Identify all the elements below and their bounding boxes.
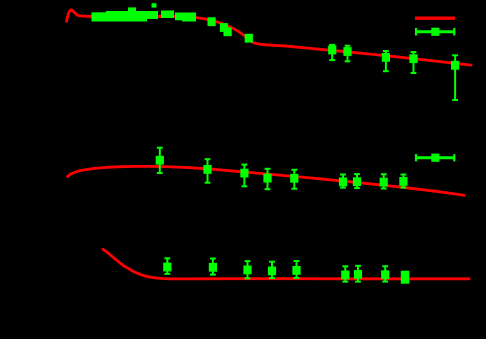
bottom point B3 error bar	[245, 261, 251, 279]
middle point M8	[380, 178, 388, 187]
bottom point C2 error bar	[355, 266, 361, 283]
top data band blob 3	[175, 13, 196, 21]
middle point M7	[353, 177, 361, 186]
middle point M5 error bar	[291, 170, 297, 190]
legend green error bar entry 2	[416, 154, 454, 161]
top point T5 error bar	[329, 45, 335, 61]
legend red line entry	[415, 17, 455, 20]
bottom point B5 error bar	[294, 261, 300, 279]
top point T9 error bar	[452, 55, 458, 100]
top point T5	[328, 46, 336, 55]
top data band blob 1	[92, 12, 148, 21]
legend green square 2	[431, 154, 439, 162]
middle point M1	[156, 156, 164, 165]
middle point M7 error bar	[354, 174, 360, 189]
middle point M9	[399, 177, 407, 186]
middle red theory curve	[68, 166, 465, 195]
bottom red theory curve	[103, 249, 469, 279]
middle point M6	[339, 177, 347, 186]
bottom point B1 error bar	[164, 258, 170, 274]
bottom point B4 error bar	[269, 261, 275, 278]
bottom point B5	[292, 266, 300, 275]
bottom point C3	[381, 270, 389, 279]
bottom point B4	[268, 267, 276, 276]
top point T6 error bar	[345, 45, 351, 61]
middle point M8 error bar	[381, 174, 387, 189]
middle point M4 error bar	[265, 169, 271, 190]
bottom point C4	[401, 271, 410, 284]
middle point M3 error bar	[242, 164, 248, 186]
middle point M1 error bar	[157, 147, 163, 173]
bottom point C3 error bar	[382, 266, 388, 282]
middle point M2 error bar	[205, 159, 211, 183]
middle point M6 error bar	[340, 174, 346, 188]
middle point M9 error bar	[401, 174, 407, 188]
top data band blob 2	[161, 11, 174, 19]
top point T6	[343, 47, 351, 56]
top point T2	[220, 23, 228, 32]
legend green error bar entry 1	[416, 28, 454, 36]
top point T9	[451, 61, 459, 70]
bottom point B3	[243, 266, 251, 275]
top data band spike cap	[152, 3, 157, 7]
middle point M5	[290, 174, 298, 183]
top data band blob 3 lower part	[182, 15, 196, 22]
top point T7	[382, 53, 390, 62]
top point T8	[409, 54, 417, 63]
top point T4	[245, 34, 253, 43]
top red theory curve	[67, 10, 472, 65]
top point T3	[224, 27, 232, 36]
legend green square 1	[431, 28, 439, 36]
middle point M3	[240, 169, 248, 178]
bottom point C1	[341, 271, 349, 280]
middle point M2	[203, 165, 211, 174]
bottom point B2 error bar	[210, 258, 216, 275]
bottom point B1	[163, 263, 171, 272]
middle point M4	[263, 174, 271, 183]
top data band blob 1 upper row	[106, 11, 158, 19]
top point T8 error bar	[411, 52, 417, 74]
bottom point C2	[354, 270, 362, 279]
top data band bump	[128, 7, 136, 12]
bottom point B2	[209, 263, 217, 272]
top point T1	[208, 17, 216, 26]
bottom point C1 error bar	[342, 266, 348, 282]
top point T7 error bar	[383, 51, 389, 72]
